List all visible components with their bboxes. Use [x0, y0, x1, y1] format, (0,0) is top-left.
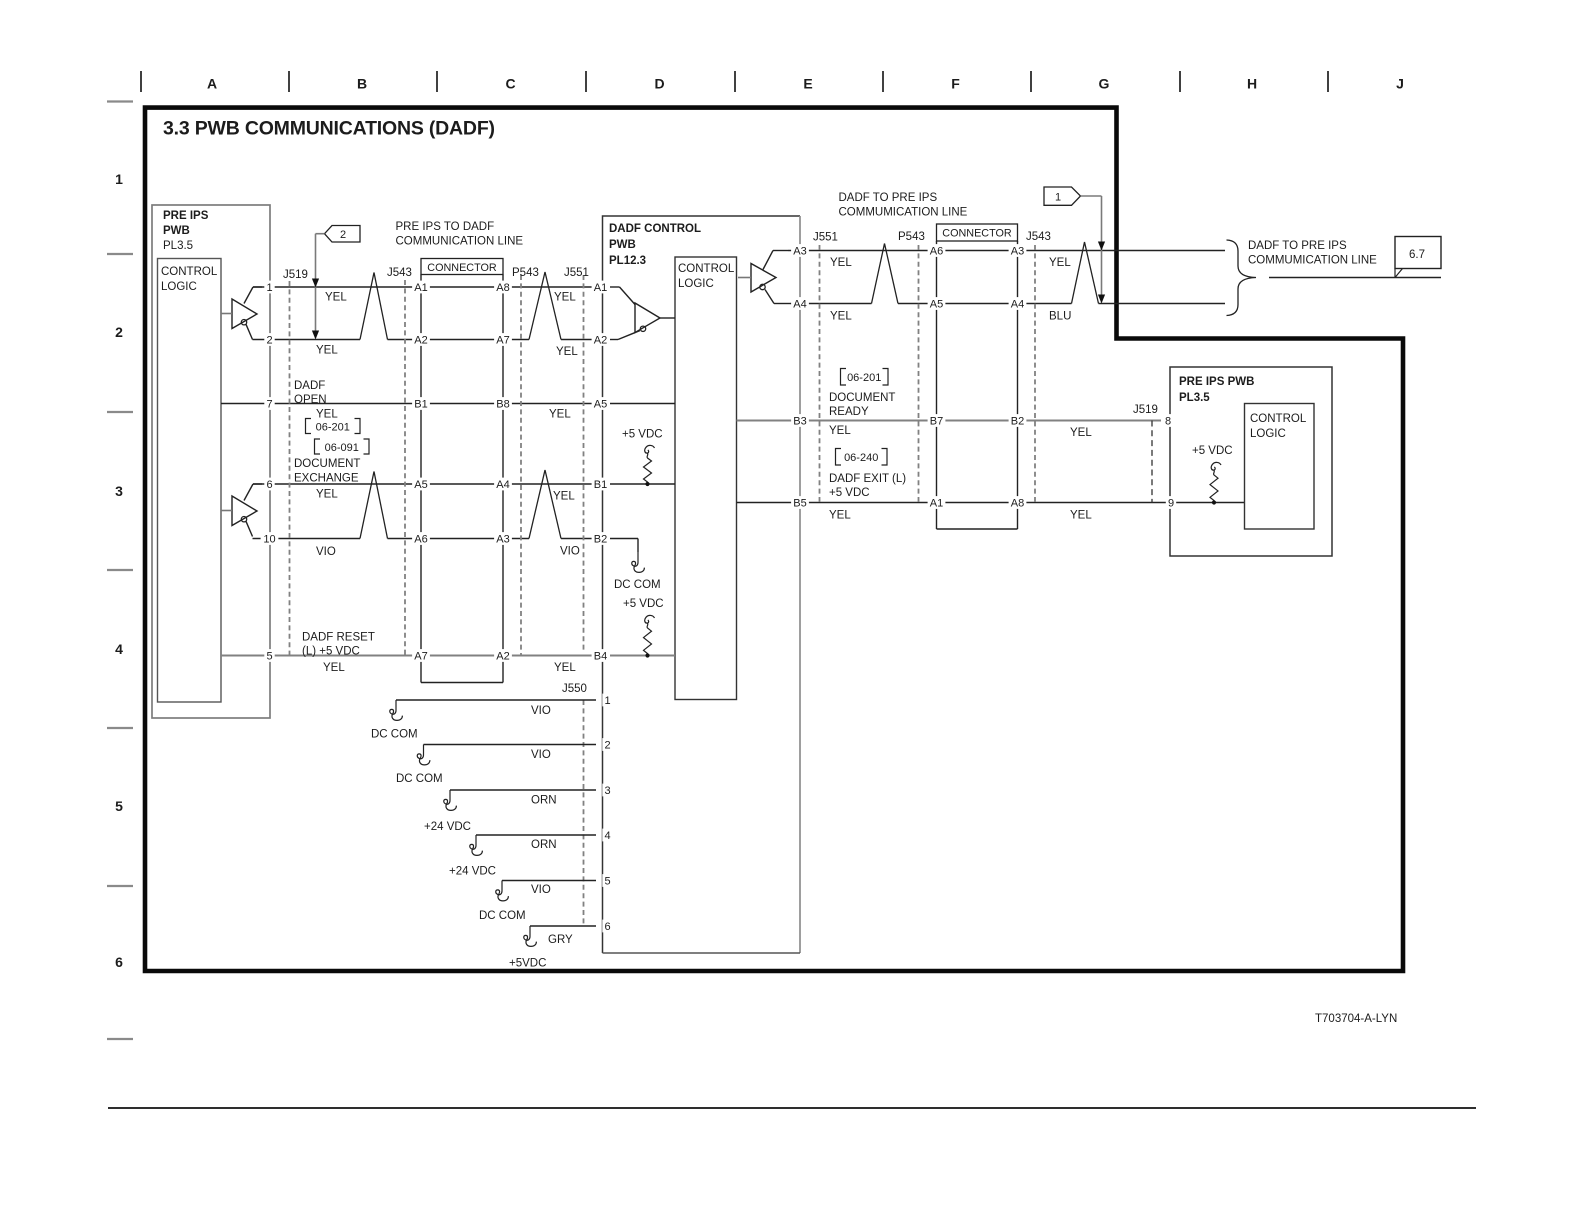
- svg-text:A5: A5: [930, 298, 943, 310]
- resistor R1: [644, 445, 655, 484]
- pin A1 J543 column: [412, 281, 430, 294]
- svg-text:E: E: [803, 76, 812, 92]
- pin B4 DADF left edge: [592, 649, 610, 662]
- svg-text:10: 10: [263, 533, 275, 545]
- svg-text:06-091: 06-091: [325, 442, 359, 454]
- svg-text:(L) +5 VDC: (L) +5 VDC: [302, 646, 360, 658]
- svg-text:A5: A5: [414, 479, 427, 491]
- connector bracket below A7/A2: [421, 682, 503, 684]
- svg-text:4: 4: [604, 830, 610, 842]
- svg-text:A7: A7: [414, 650, 427, 662]
- svg-text:A2: A2: [414, 334, 427, 346]
- svg-text:7: 7: [266, 398, 272, 410]
- svg-text:1: 1: [1055, 192, 1061, 204]
- svg-text:A7: A7: [496, 334, 509, 346]
- svg-text:P543: P543: [898, 231, 925, 243]
- wire B1 row into logic: [610, 483, 675, 485]
- svg-text:J519: J519: [1133, 404, 1158, 416]
- label CONTROL LOGIC (DADF): [678, 263, 735, 290]
- pin 2 PRE IPS left: [264, 333, 274, 346]
- svg-text:CONTROL: CONTROL: [161, 266, 218, 278]
- svg-text:8: 8: [1165, 415, 1171, 427]
- svg-text:A1: A1: [594, 282, 607, 294]
- svg-text:DADF: DADF: [294, 380, 325, 392]
- pin A1 right connector A-side: [928, 496, 946, 509]
- pin A5 DADF left edge: [592, 397, 610, 410]
- wire row pin10 VIO segment c: [561, 538, 598, 540]
- pin A3 DADF right edge: [791, 244, 809, 257]
- pin 4 J550: [602, 829, 612, 842]
- connector J550 dashed line: [583, 700, 585, 926]
- bottom rule line: [108, 1107, 1476, 1109]
- svg-text:A6: A6: [414, 533, 427, 545]
- PRE IPS PWB PL3.5 box (right): [1170, 367, 1332, 556]
- grid ruler column letters A-J: [207, 76, 1404, 92]
- svg-text:06-240: 06-240: [844, 452, 878, 464]
- svg-text:YEL: YEL: [554, 662, 576, 674]
- svg-text:YEL: YEL: [316, 409, 338, 421]
- pin A8 right connector B-side: [1009, 496, 1027, 509]
- pin A5 right connector A-side: [928, 297, 946, 310]
- svg-text:2: 2: [604, 739, 610, 751]
- wire B4 row into logic (gray): [610, 654, 675, 656]
- svg-text:J519: J519: [283, 269, 308, 281]
- svg-text:A5: A5: [594, 398, 607, 410]
- svg-text:J551: J551: [564, 267, 589, 279]
- svg-text:A3: A3: [793, 245, 806, 257]
- svg-text:3: 3: [115, 483, 123, 499]
- connector J543 right dashed line: [1034, 245, 1036, 503]
- svg-text:PL12.3: PL12.3: [609, 255, 646, 267]
- wire row pin6 DOCUMENT EXCHANGE: [253, 483, 598, 485]
- twisted-pair spike (J519/J543 rows 6-10): [360, 472, 388, 539]
- pin A3 right connector B-side: [1009, 244, 1027, 257]
- pin A3 P543 column: [494, 532, 512, 545]
- CONTROL LOGIC box (right): [1245, 404, 1315, 530]
- wire row pin10 VIO segment b: [388, 538, 530, 540]
- connector column P543 A-side vertical: [502, 275, 504, 683]
- svg-text:VIO: VIO: [531, 749, 551, 761]
- svg-text:+5VDC: +5VDC: [509, 958, 546, 970]
- grid ruler left dash marks: [107, 102, 133, 1040]
- svg-text:DADF EXIT (L): DADF EXIT (L): [829, 473, 906, 485]
- svg-text:VIO: VIO: [531, 705, 551, 717]
- svg-text:YEL: YEL: [316, 489, 338, 501]
- svg-text:PL3.5: PL3.5: [1179, 392, 1210, 404]
- svg-text:9: 9: [1168, 497, 1174, 509]
- wire row pin1 YEL (J519-1 to J551-A1): [253, 286, 598, 288]
- pin A4 right connector B-side: [1009, 297, 1027, 310]
- pin A6 right connector A-side: [928, 244, 946, 257]
- svg-text:+24 VDC: +24 VDC: [449, 866, 496, 878]
- curl at J550 pin6: [524, 926, 537, 946]
- twisted-pair spike (J551/P543 right rows A3/A4): [872, 244, 899, 304]
- wire row pin7 DADF OPEN: [221, 403, 598, 405]
- svg-text:B8: B8: [496, 398, 509, 410]
- wire J550 pin1: [396, 699, 596, 701]
- svg-text:CONTROL: CONTROL: [678, 263, 735, 275]
- svg-text:G: G: [1099, 76, 1110, 92]
- pin 2 J550: [602, 738, 612, 751]
- svg-text:1: 1: [604, 695, 610, 707]
- svg-text:1: 1: [266, 282, 272, 294]
- svg-text:A1: A1: [414, 282, 427, 294]
- pin A1 DADF left edge: [592, 281, 610, 294]
- wire J550 pin4: [476, 834, 596, 836]
- svg-text:1: 1: [115, 171, 123, 187]
- svg-text:YEL: YEL: [325, 292, 347, 304]
- svg-text:COMMUNICATION LINE: COMMUNICATION LINE: [396, 236, 524, 248]
- svg-text:B4: B4: [594, 650, 607, 662]
- svg-text:YEL: YEL: [553, 491, 575, 503]
- pin A2 DADF left edge: [592, 333, 610, 346]
- svg-text:DC COM: DC COM: [396, 773, 443, 785]
- wire row B5 DADF EXIT: [737, 502, 1245, 504]
- pin B2 right connector B-side: [1009, 414, 1027, 427]
- curl at J550 pin1: [390, 700, 403, 720]
- connector P543 dashed line: [520, 275, 522, 656]
- connector column J543 A-side vertical: [420, 275, 422, 683]
- op-amp buffer U3 (DADF receiver A1/A2): [610, 287, 675, 340]
- svg-text:A8: A8: [1011, 497, 1024, 509]
- svg-text:B2: B2: [594, 533, 607, 545]
- fault code [06-091] left: [315, 439, 370, 454]
- CONTROL LOGIC box (DADF): [675, 257, 737, 700]
- pin B1 DADF left edge: [592, 478, 610, 491]
- label DADF EXIT (L) +5 VDC: [829, 473, 906, 499]
- pin A7 J543 column: [412, 649, 430, 662]
- op-amp buffer U1 (PRE IPS driver pins 1/2): [221, 287, 262, 340]
- label DADF CONTROL PWB PL12.3: [609, 223, 701, 267]
- pin B7 right connector A-side: [928, 414, 946, 427]
- flag reference 1 with arrow to A3/A4 wires: [1044, 187, 1105, 304]
- pin 8 PRE IPS right: [1163, 414, 1173, 427]
- wire J550 pin3: [450, 789, 596, 791]
- svg-text:+24 VDC: +24 VDC: [424, 821, 471, 833]
- svg-text:YEL: YEL: [829, 510, 851, 522]
- twisted-pair spike (P543/J551 rows 6-10): [529, 470, 561, 539]
- svg-text:ORN: ORN: [531, 839, 557, 851]
- svg-text:A2: A2: [594, 334, 607, 346]
- svg-text:YEL: YEL: [1049, 257, 1071, 269]
- svg-text:B7: B7: [930, 415, 943, 427]
- svg-text:2: 2: [115, 324, 123, 340]
- svg-text:A2: A2: [496, 650, 509, 662]
- label DADF RESET (L) +5 VDC: [302, 632, 375, 658]
- fault code [06-201] left: [306, 419, 361, 434]
- pin A6 J543 column: [412, 532, 430, 545]
- twisted-pair spike (J519/J543 rows 1-2): [360, 273, 388, 340]
- label DADF TO PRE IPS COMMUMICATION LINE (notch): [1248, 240, 1377, 267]
- svg-text:J543: J543: [387, 267, 412, 279]
- svg-text:A4: A4: [1011, 298, 1024, 310]
- fault code [06-240] right: [836, 449, 888, 466]
- svg-text:06-201: 06-201: [847, 372, 881, 384]
- svg-text:A3: A3: [496, 533, 509, 545]
- svg-text:C: C: [505, 76, 515, 92]
- svg-text:2: 2: [340, 229, 346, 241]
- pin 1 PRE IPS left: [264, 281, 274, 294]
- connector J519 right dashed line: [1151, 421, 1153, 503]
- svg-text:6: 6: [115, 954, 123, 970]
- svg-text:YEL: YEL: [830, 257, 852, 269]
- svg-text:F: F: [951, 76, 960, 92]
- svg-text:A6: A6: [930, 245, 943, 257]
- wire J550 pin2: [424, 744, 597, 746]
- svg-text:D: D: [654, 76, 664, 92]
- wire row pin2 YEL segment a: [253, 339, 361, 341]
- svg-text:A4: A4: [793, 298, 806, 310]
- svg-text:LOGIC: LOGIC: [1250, 428, 1286, 440]
- wire B2 to DC COM: [610, 538, 638, 540]
- pin A4 P543 column: [494, 478, 512, 491]
- PRE IPS PWB PL3.5 box (left): [152, 205, 270, 718]
- svg-text:PL3.5: PL3.5: [163, 240, 193, 252]
- pin B2 DADF left edge: [592, 532, 610, 545]
- svg-text:YEL: YEL: [830, 311, 852, 323]
- wire row A4 segment b: [898, 303, 1072, 305]
- svg-text:B1: B1: [414, 398, 427, 410]
- wire J550 pin6: [530, 925, 596, 927]
- curl at J550 pin4: [470, 835, 483, 855]
- label DADF TO PRE IPS COMMUMICATION LINE (top): [839, 192, 968, 219]
- svg-text:06-201: 06-201: [316, 422, 350, 434]
- svg-text:YEL: YEL: [323, 662, 345, 674]
- svg-text:DOCUMENT: DOCUMENT: [829, 392, 895, 404]
- svg-text:ORN: ORN: [531, 795, 557, 807]
- wire row pin2 YEL segment c: [561, 339, 598, 341]
- wire row A3 YEL out: [788, 250, 1225, 252]
- svg-text:CONNECTOR: CONNECTOR: [427, 262, 497, 274]
- svg-text:GRY: GRY: [548, 934, 573, 946]
- pin 3 J550: [602, 784, 612, 797]
- label DADF OPEN: [294, 380, 327, 406]
- svg-text:B2: B2: [1011, 415, 1024, 427]
- svg-text:EXCHANGE: EXCHANGE: [294, 473, 359, 485]
- svg-text:YEL: YEL: [554, 292, 576, 304]
- fault code [06-201] right: [841, 369, 889, 386]
- svg-text:P543: P543: [512, 267, 539, 279]
- svg-text:6: 6: [604, 921, 610, 933]
- pin B1 J543 column: [412, 397, 430, 410]
- svg-text:J550: J550: [562, 683, 587, 695]
- svg-text:A3: A3: [1011, 245, 1024, 257]
- wire row A4 segment c: [1099, 303, 1226, 305]
- pin 6 PRE IPS left: [264, 478, 274, 491]
- resistor R2: [644, 615, 655, 655]
- pin 5 PRE IPS left: [264, 649, 274, 662]
- pin 5 J550: [602, 874, 612, 887]
- svg-text:B: B: [357, 76, 367, 92]
- svg-text:6.7: 6.7: [1409, 249, 1425, 261]
- svg-text:6: 6: [266, 479, 272, 491]
- svg-text:READY: READY: [829, 406, 869, 418]
- svg-text:B5: B5: [793, 497, 806, 509]
- svg-text:DOCUMENT: DOCUMENT: [294, 458, 360, 470]
- svg-text:DADF CONTROL: DADF CONTROL: [609, 223, 701, 235]
- svg-text:YEL: YEL: [829, 425, 851, 437]
- pin 1 J550: [602, 694, 612, 707]
- pin 10 PRE IPS left: [261, 532, 279, 545]
- wire row pin5 DADF RESET (gray): [221, 654, 598, 656]
- diagram thick border frame with top-right notch: [145, 108, 1403, 971]
- svg-text:PWB: PWB: [163, 225, 190, 237]
- svg-text:5: 5: [115, 798, 123, 814]
- svg-text:3: 3: [604, 785, 610, 797]
- svg-text:+5 VDC: +5 VDC: [829, 487, 870, 499]
- op-amp buffer U4 (DADF driver A3/A4): [738, 251, 790, 304]
- svg-text:5: 5: [266, 650, 272, 662]
- svg-text:PRE IPS TO DADF: PRE IPS TO DADF: [396, 221, 495, 233]
- wire row pin2 YEL segment b: [388, 339, 530, 341]
- label CONTROL LOGIC (left): [161, 266, 218, 293]
- pin B8 P543 column: [494, 397, 512, 410]
- label CONTROL LOGIC (right): [1250, 413, 1307, 440]
- connector J543 dashed line: [404, 280, 406, 656]
- label PRE IPS PWB PL3.5 (left): [163, 210, 209, 252]
- junction dot R2/B4: [645, 653, 649, 657]
- pin A2 P543 column: [494, 649, 512, 662]
- pin B3 DADF right edge: [791, 414, 809, 427]
- pin A4 DADF right edge: [791, 297, 809, 310]
- CONNECTOR box (right): [937, 224, 1018, 241]
- svg-text:+5 VDC: +5 VDC: [1192, 445, 1233, 457]
- CONTROL LOGIC box (left): [158, 259, 222, 703]
- connector P543 right dashed line: [918, 245, 920, 503]
- pin 7 PRE IPS left: [264, 397, 274, 410]
- svg-text:J551: J551: [813, 232, 838, 244]
- svg-text:PWB: PWB: [609, 239, 636, 251]
- connector J551 right dashed line: [819, 245, 821, 503]
- svg-text:YEL: YEL: [1070, 510, 1092, 522]
- connector J519 dashed line: [289, 281, 291, 656]
- wire row A4 segment a: [790, 303, 872, 305]
- label DOCUMENT EXCHANGE: [294, 458, 360, 485]
- label DOCUMENT READY: [829, 392, 895, 418]
- svg-text:J543: J543: [1026, 231, 1051, 243]
- svg-text:VIO: VIO: [560, 546, 580, 558]
- label PRE IPS PWB PL3.5 (right): [1179, 376, 1254, 404]
- connector column right B-side vertical: [1017, 241, 1019, 529]
- svg-text:YEL: YEL: [556, 346, 578, 358]
- svg-text:DADF RESET: DADF RESET: [302, 632, 375, 644]
- wire J550 pin5: [502, 880, 596, 882]
- svg-text:LOGIC: LOGIC: [161, 281, 197, 293]
- svg-text:+5 VDC: +5 VDC: [622, 429, 663, 441]
- note box 6.7: [1269, 237, 1441, 278]
- DADF CONTROL PWB PL12.3 box: [603, 216, 801, 953]
- svg-text:+5 VDC: +5 VDC: [623, 598, 664, 610]
- wire A5 row into logic: [610, 403, 675, 405]
- svg-text:B1: B1: [594, 479, 607, 491]
- svg-text:YEL: YEL: [1070, 427, 1092, 439]
- svg-text:DADF TO PRE IPS: DADF TO PRE IPS: [1248, 240, 1347, 252]
- svg-text:A1: A1: [930, 497, 943, 509]
- CONNECTOR box (left, J543/P543): [421, 259, 503, 275]
- svg-text:A4: A4: [496, 479, 509, 491]
- pin A8 P543 column: [494, 281, 512, 294]
- svg-text:DC COM: DC COM: [479, 910, 526, 922]
- pin 9 PRE IPS right: [1166, 496, 1176, 509]
- connector bracket below A1/A8: [937, 528, 1018, 530]
- svg-text:DC COM: DC COM: [371, 729, 418, 741]
- svg-text:2: 2: [266, 334, 272, 346]
- junction dot R1/B1: [645, 482, 649, 486]
- svg-text:DC COM: DC COM: [614, 579, 661, 591]
- twisted-pair spike (P543/J551 rows 1-2): [529, 272, 561, 340]
- label PRE IPS TO DADF COMMUNICATION LINE: [396, 221, 524, 248]
- flag reference 2 with arrow to J519 wires: [312, 226, 360, 340]
- svg-text:OPEN: OPEN: [294, 394, 327, 406]
- curl at J550 pin2: [417, 745, 430, 765]
- svg-text:PRE IPS PWB: PRE IPS PWB: [1179, 376, 1254, 388]
- curl at J550 pin5: [496, 881, 509, 901]
- svg-text:4: 4: [115, 641, 123, 657]
- pin 6 J550: [602, 920, 612, 933]
- svg-text:YEL: YEL: [549, 409, 571, 421]
- grid ruler row numbers 1-6: [115, 171, 123, 970]
- brace for DADF TO PRE IPS lines: [1227, 240, 1257, 316]
- wire row B3 DOCUMENT READY (gray): [737, 419, 1162, 421]
- svg-text:J: J: [1396, 76, 1404, 92]
- pin A7 P543 column: [494, 333, 512, 346]
- svg-text:COMMUMICATION LINE: COMMUMICATION LINE: [839, 207, 968, 219]
- svg-text:CONNECTOR: CONNECTOR: [942, 228, 1012, 240]
- svg-text:H: H: [1247, 76, 1257, 92]
- svg-text:PRE IPS: PRE IPS: [163, 210, 209, 222]
- svg-text:5: 5: [604, 875, 610, 887]
- pin A2 J543 column: [412, 333, 430, 346]
- svg-text:CONTROL: CONTROL: [1250, 413, 1307, 425]
- connector column right A-side vertical: [936, 241, 938, 529]
- connector J551 dashed line: [583, 275, 585, 651]
- svg-text:B3: B3: [793, 415, 806, 427]
- svg-text:3.3 PWB COMMUNICATIONS (DADF): 3.3 PWB COMMUNICATIONS (DADF): [163, 118, 495, 140]
- op-amp buffer U2 (PRE IPS driver pins 6/10): [221, 484, 262, 537]
- svg-text:YEL: YEL: [316, 345, 338, 357]
- svg-text:LOGIC: LOGIC: [678, 278, 714, 290]
- svg-text:COMMUMICATION LINE: COMMUMICATION LINE: [1248, 255, 1377, 267]
- pin A5 J543 column: [412, 478, 430, 491]
- curl DC COM at B2: [632, 552, 645, 572]
- svg-text:A: A: [207, 76, 217, 92]
- svg-text:T703704-A-LYN: T703704-A-LYN: [1315, 1013, 1397, 1025]
- wire row pin10 VIO segment a: [253, 538, 361, 540]
- svg-text:A8: A8: [496, 282, 509, 294]
- svg-text:VIO: VIO: [531, 884, 551, 896]
- twisted-pair spike (J543 right rows A3/A4): [1072, 242, 1099, 304]
- svg-text:DADF TO PRE IPS: DADF TO PRE IPS: [839, 192, 938, 204]
- resistor R3: [1210, 462, 1221, 502]
- svg-text:BLU: BLU: [1049, 311, 1071, 323]
- junction dot R3/pin9: [1212, 500, 1216, 504]
- grid ruler top tick marks: [141, 71, 1328, 92]
- curl at J550 pin3: [444, 790, 457, 810]
- pin B5 DADF right edge: [791, 496, 809, 509]
- svg-text:VIO: VIO: [316, 546, 336, 558]
